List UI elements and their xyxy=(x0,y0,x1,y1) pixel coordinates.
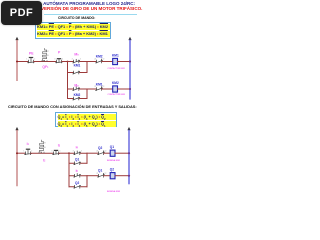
coil KM2 xyxy=(113,86,118,92)
wire b-box1 top path xyxy=(69,152,87,154)
wire rung2 rail to NC KM1 xyxy=(87,88,96,90)
wire NC to coil Q1 xyxy=(104,152,110,154)
wire L1 vertical rail xyxy=(16,40,18,80)
svg-text:KM2: KM2 xyxy=(112,81,119,85)
wire coil2 to N rail xyxy=(118,88,131,90)
svg-text:4: 4 xyxy=(62,59,63,61)
contact I1 (NC pushbutton) xyxy=(25,149,32,154)
svg-text:I4: I4 xyxy=(76,146,79,150)
wire top rail segment 1 xyxy=(17,61,28,63)
wire branch vertical xyxy=(67,62,69,99)
svg-text:3: 3 xyxy=(73,150,74,152)
svg-text:Q1: Q1 xyxy=(75,158,79,162)
wire coil Q1 to N rail xyxy=(115,152,129,154)
contact I4 (NO) xyxy=(74,151,81,155)
contact I5 (NO) xyxy=(74,174,81,178)
svg-text:95: 95 xyxy=(47,55,49,57)
PDF badge text xyxy=(1,1,42,25)
node junction phase/rail (bottom) xyxy=(16,152,18,154)
svg-text:Q2: Q2 xyxy=(75,181,79,185)
node branch junction xyxy=(67,61,69,63)
wire N neutral rail xyxy=(129,40,131,99)
svg-text:22: 22 xyxy=(102,59,104,61)
coil KM1 xyxy=(113,58,118,64)
wire coil to N rail xyxy=(118,61,131,63)
wire box1 bottom path xyxy=(68,72,88,74)
wire rail segment 3 xyxy=(62,61,68,63)
contact Ma (NO) xyxy=(73,87,80,91)
PDF badge xyxy=(1,1,42,25)
title line 2 xyxy=(36,7,142,12)
wire b-box2 bottom path xyxy=(69,186,87,188)
wire b-rung2 rail to NC Q1 xyxy=(87,175,98,177)
svg-text:21: 21 xyxy=(96,150,98,152)
svg-text:97: 97 xyxy=(44,143,46,145)
svg-text:I5: I5 xyxy=(76,169,79,173)
contact Q1 (NC) xyxy=(98,173,105,177)
svg-text:21: 21 xyxy=(94,59,96,61)
wire rail to NC KM2 xyxy=(87,61,96,63)
wire b-rail to NC Q2 xyxy=(87,152,98,154)
node N neutral arrow (bottom circuit) xyxy=(127,127,130,130)
contact Mh (NO) xyxy=(73,59,80,63)
svg-text:1: 1 xyxy=(23,150,24,152)
svg-text:21: 21 xyxy=(94,86,96,88)
title underline xyxy=(44,13,137,16)
svg-text:1: 1 xyxy=(26,59,27,61)
equation Q2 xyxy=(58,121,116,127)
wire NC to coil Q2 xyxy=(104,175,110,177)
svg-text:3: 3 xyxy=(51,150,52,152)
equation KM1 xyxy=(37,24,110,30)
wire box2 bottom path xyxy=(68,98,88,100)
node junction coil2/N xyxy=(129,88,131,90)
contact Q1 aux (NO) xyxy=(74,162,81,165)
svg-text:22: 22 xyxy=(104,173,106,175)
svg-text:CONTACTOR KM1: CONTACTOR KM1 xyxy=(108,67,126,70)
svg-text:Q1: Q1 xyxy=(110,145,114,149)
wire b-rung2 top path xyxy=(69,175,87,177)
svg-text:P: P xyxy=(58,50,61,54)
wire N neutral rail (bottom) xyxy=(128,130,130,183)
wire b-box2 right vertical xyxy=(86,176,88,187)
wire rail segment 2 xyxy=(34,61,56,63)
svg-text:BOBINA KM1: BOBINA KM1 xyxy=(107,159,121,162)
svg-text:22: 22 xyxy=(104,150,106,152)
wire phase vertical rail (bottom) xyxy=(16,130,18,185)
node branch junction (bottom) xyxy=(68,152,70,154)
svg-text:Mh: Mh xyxy=(74,53,79,57)
contact KM2 aux (NO) xyxy=(73,97,80,100)
contact I3 (NC pushbutton) xyxy=(53,150,60,154)
wire box2 right vertical xyxy=(86,89,88,99)
subtitle CIRCUITO DE MANDO xyxy=(58,17,95,20)
svg-text:Q1: Q1 xyxy=(98,169,102,173)
wire b-box1 right vertical xyxy=(86,153,88,163)
svg-text:97: 97 xyxy=(47,51,49,53)
wire NC to coil xyxy=(102,61,113,63)
wire rail segment 2 (bottom) xyxy=(31,152,53,154)
contact P (NC pushbutton) xyxy=(56,59,63,63)
svg-text:I1: I1 xyxy=(27,142,30,146)
svg-text:CONTACTOR KM2: CONTACTOR KM2 xyxy=(108,93,126,96)
wire b-box1 bottom path xyxy=(69,162,87,164)
svg-text:KM2: KM2 xyxy=(74,93,81,97)
svg-text:Ma: Ma xyxy=(74,83,79,87)
wire box1 right vertical xyxy=(86,62,88,73)
wire branch vertical (bottom) xyxy=(68,153,70,187)
svg-text:4: 4 xyxy=(80,59,81,61)
node N neutral arrow (top) xyxy=(128,37,131,40)
contact PE (NC pushbutton) xyxy=(28,58,35,63)
coil Q1 xyxy=(110,150,115,156)
node junction coil1/N xyxy=(129,60,131,62)
thermal relay QF1 meander xyxy=(42,48,47,61)
node junction coilQ1/N xyxy=(128,152,130,154)
wire rail segment 3 (bottom) xyxy=(59,152,69,154)
contact Q2 (NC) xyxy=(98,151,105,155)
svg-text:21: 21 xyxy=(96,173,98,175)
equation Q1 xyxy=(58,114,116,120)
wire box1 top path xyxy=(68,61,88,63)
title line 1 xyxy=(36,2,135,7)
svg-text:KM1: KM1 xyxy=(74,64,81,68)
section title 2 xyxy=(8,105,137,109)
coil Q2 xyxy=(110,173,115,179)
svg-text:KM1: KM1 xyxy=(112,53,119,57)
wire bottom rail segment 1 xyxy=(17,152,25,154)
thermal relay I2 meander xyxy=(39,140,44,153)
contact KM1 (NC) xyxy=(96,87,103,91)
contact KM1 aux (NO) xyxy=(73,71,80,74)
wire NC to coil KM2 xyxy=(102,88,113,90)
node L1 phase arrow (top) xyxy=(15,37,18,40)
svg-text:4: 4 xyxy=(81,150,82,152)
contact KM2 (NC) xyxy=(96,59,103,63)
equation KM2 xyxy=(37,31,110,37)
svg-text:I2: I2 xyxy=(43,159,46,163)
svg-text:95: 95 xyxy=(44,147,46,149)
svg-text:I3: I3 xyxy=(58,143,61,147)
equation box 1 xyxy=(35,22,111,39)
node junction L1/rail xyxy=(16,61,18,63)
wire rung2 top path xyxy=(68,88,88,90)
svg-text:4: 4 xyxy=(59,150,60,152)
equation box 2 xyxy=(55,112,117,127)
svg-text:QF1: QF1 xyxy=(42,65,49,69)
svg-text:22: 22 xyxy=(102,86,104,88)
node junction coilQ2/N xyxy=(128,175,130,177)
svg-text:2: 2 xyxy=(34,59,35,61)
node L1 phase arrow (bottom circuit) xyxy=(15,127,18,130)
svg-text:3: 3 xyxy=(72,59,73,61)
svg-text:PE: PE xyxy=(29,51,34,55)
svg-text:Q2: Q2 xyxy=(98,146,102,150)
svg-text:3: 3 xyxy=(54,59,55,61)
svg-text:Q2: Q2 xyxy=(110,167,114,171)
svg-text:2: 2 xyxy=(31,150,32,152)
wire coil Q2 to N rail xyxy=(115,175,129,177)
contact Q2 aux (NO) xyxy=(74,185,81,188)
svg-text:BOBINA KM2: BOBINA KM2 xyxy=(107,190,121,193)
